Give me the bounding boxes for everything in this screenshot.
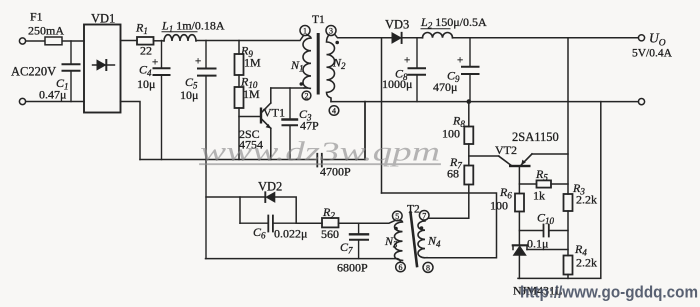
transformer T1 core — [317, 35, 320, 94]
svg-text:T2: T2 — [407, 204, 420, 216]
node pin 6 — [396, 262, 406, 272]
svg-text:8: 8 — [426, 263, 430, 272]
svg-text:5V/0.4A: 5V/0.4A — [632, 48, 673, 60]
node pin 5 — [393, 211, 403, 221]
svg-text:7: 7 — [422, 211, 426, 220]
svg-text:0.022μ: 0.022μ — [274, 227, 307, 241]
resistor R7 — [464, 166, 473, 185]
polarity dot N2 — [335, 41, 339, 45]
capacitor C9 — [469, 38, 471, 102]
svg-text:10μ: 10μ — [137, 77, 155, 91]
svg-text:+: + — [152, 57, 158, 69]
wire output top — [453, 37, 639, 39]
wire VT2 collector — [469, 155, 499, 157]
T2 winding N4 — [418, 220, 427, 258]
svg-text:47P: 47P — [300, 119, 319, 133]
T1 winding N2 — [327, 35, 335, 102]
svg-text:68: 68 — [447, 167, 459, 181]
polarity dot N1 — [300, 82, 304, 86]
svg-text:C6: C6 — [253, 225, 266, 241]
svg-text:22: 22 — [140, 44, 152, 58]
terminal input bottom — [19, 98, 25, 104]
svg-text:1: 1 — [303, 27, 307, 36]
svg-text:www.dz3w.qpm: www.dz3w.qpm — [200, 137, 440, 167]
transformer T2 core — [411, 213, 418, 267]
svg-text:100: 100 — [442, 127, 460, 141]
capacitor C5 — [205, 41, 207, 259]
svg-text:VD2: VD2 — [258, 180, 282, 194]
svg-text:+: + — [195, 56, 201, 68]
wire bottom right rail — [518, 102, 601, 279]
svg-text:R2: R2 — [322, 205, 335, 221]
svg-text:C4: C4 — [139, 63, 152, 79]
svg-text:4: 4 — [332, 107, 336, 116]
capacitor C3 — [289, 88, 291, 160]
svg-text:C10: C10 — [537, 211, 555, 227]
resistor R5 — [519, 183, 536, 185]
wire secondary rail — [331, 101, 638, 103]
bridge rectifier VD1 — [84, 25, 121, 113]
svg-text:VT2: VT2 — [495, 143, 517, 157]
wire feedback loop — [382, 193, 497, 258]
resistor R8 — [468, 102, 470, 127]
watermark dz3w — [200, 137, 440, 167]
capacitor 4700P — [317, 154, 322, 167]
terminal input top — [19, 38, 25, 44]
svg-text:100: 100 — [490, 199, 508, 213]
wire ref — [527, 249, 568, 251]
svg-text:N1: N1 — [290, 58, 304, 74]
wire collector to N1 — [271, 87, 304, 89]
svg-text:1M: 1M — [244, 56, 261, 70]
svg-text:2.2k: 2.2k — [576, 256, 597, 270]
transistor VT2 — [509, 165, 531, 167]
T2 winding N3 — [395, 220, 403, 260]
terminal output bottom — [638, 99, 644, 105]
capacitor C1 — [70, 41, 72, 102]
resistor R9 — [238, 41, 240, 55]
capacitor C7 — [358, 223, 360, 258]
wire pin3 to VD3 — [335, 34, 392, 38]
node pin 1 — [300, 26, 310, 36]
node pin 2 — [302, 91, 311, 100]
svg-text:250mA: 250mA — [28, 24, 64, 38]
inductor L1 — [164, 35, 196, 41]
wire VD1 bottom to rail — [121, 102, 141, 160]
svg-text:AC220V: AC220V — [11, 65, 56, 79]
svg-text:2: 2 — [305, 92, 309, 101]
svg-text:2SA1150: 2SA1150 — [512, 130, 559, 144]
svg-text:C7: C7 — [340, 240, 353, 256]
svg-text:1k: 1k — [533, 189, 545, 203]
svg-text:0.1μ: 0.1μ — [527, 237, 548, 251]
svg-text:6800P: 6800P — [337, 261, 368, 275]
capacitor C6 — [240, 222, 296, 224]
T1 winding N1 — [303, 35, 311, 89]
svg-text:4700P: 4700P — [320, 165, 351, 179]
resistor R3 — [564, 194, 573, 211]
capacitor C8 — [416, 38, 418, 102]
svg-text:N3: N3 — [384, 234, 398, 250]
resistor R6 — [515, 194, 524, 212]
capacitor C10 — [519, 230, 568, 232]
wire input bottom — [26, 101, 84, 103]
wire primary rail — [140, 159, 317, 161]
svg-text:0.47μ: 0.47μ — [39, 88, 66, 102]
resistor R2 — [296, 222, 322, 224]
svg-text:L2 150μ/0.5A: L2 150μ/0.5A — [420, 15, 487, 31]
svg-text:+: + — [457, 55, 463, 67]
polarity dot N4 — [420, 226, 424, 230]
resistor R10 — [238, 75, 240, 87]
node pin 7 — [419, 211, 429, 221]
svg-text:560: 560 — [321, 227, 339, 241]
svg-text:VT1: VT1 — [263, 106, 285, 120]
svg-text:R5: R5 — [535, 167, 548, 183]
svg-text:N2: N2 — [332, 56, 346, 72]
svg-text:VD1: VD1 — [91, 12, 115, 26]
resistor R4 — [564, 256, 573, 275]
wire VT2 emitter — [532, 153, 568, 155]
vertical feedback line — [567, 38, 569, 194]
svg-text:10μ: 10μ — [180, 88, 198, 102]
svg-text:UO: UO — [649, 31, 666, 49]
svg-text:F1: F1 — [30, 10, 43, 24]
svg-text:3: 3 — [329, 27, 333, 36]
node pin 4 — [329, 106, 339, 116]
svg-text:1M: 1M — [243, 87, 260, 101]
wire VD1 to R1 — [121, 40, 138, 42]
terminal output top — [638, 35, 644, 41]
pin numbers — [303, 27, 430, 273]
wire anode drop — [381, 38, 383, 193]
polarity dot N3 — [394, 227, 398, 231]
wire 4700P to pin4 — [364, 102, 366, 160]
wire base VT1 — [239, 116, 260, 118]
node pin 3 — [326, 26, 336, 36]
capacitor C4 — [161, 41, 163, 160]
svg-text:N4: N4 — [427, 234, 441, 250]
svg-text:6: 6 — [399, 263, 403, 272]
transistor VT1 — [260, 108, 262, 124]
node pin 8 — [423, 262, 433, 272]
diode VD2 — [206, 197, 296, 223]
wire bottom return — [206, 259, 401, 263]
svg-text:2.2k: 2.2k — [576, 193, 597, 207]
svg-text:470μ: 470μ — [433, 80, 457, 94]
wire L1 to node — [196, 35, 304, 40]
shunt regulator NJM431 — [513, 244, 527, 246]
svg-text:T1: T1 — [312, 14, 325, 26]
svg-text:1000μ: 1000μ — [382, 77, 412, 91]
wire input top — [26, 40, 84, 42]
wire R1 to L1 — [154, 40, 165, 42]
svg-text:http://www.go-gddq.com: http://www.go-gddq.com — [520, 284, 698, 302]
svg-text:5: 5 — [395, 212, 399, 221]
fuse F1 — [45, 37, 62, 45]
svg-text:R1: R1 — [135, 21, 148, 37]
inductor L2 — [423, 32, 453, 37]
resistor R1 — [137, 37, 154, 45]
junction dot C9/R8 — [467, 99, 472, 104]
svg-text:VD3: VD3 — [385, 18, 409, 32]
svg-text:+: + — [404, 55, 410, 67]
diode VD3 — [392, 33, 401, 43]
